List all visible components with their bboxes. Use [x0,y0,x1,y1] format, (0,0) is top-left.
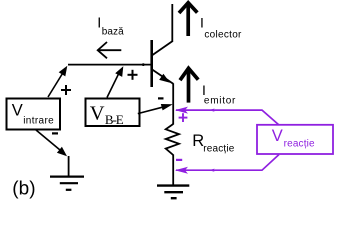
svg-text:intrare: intrare [23,115,54,126]
plus sign purple at resistor top [179,113,188,122]
node junction dot on base wire [142,63,145,66]
wire: base wire node B [68,64,151,66]
resistor Rreactie zigzag [166,124,179,155]
svg-text:I: I [200,15,204,31]
svg-text:colector: colector [204,29,242,40]
svg-text:V: V [90,103,105,125]
svg-text:bază: bază [102,27,124,38]
wire: emitter vertical [172,83,174,124]
current arrow Iemitor (thick, up) [180,68,198,102]
arrow VB-E to emitter [138,104,173,114]
svg-text:V: V [272,127,283,145]
ground left [50,177,84,190]
wire: emitter diagonal of Q1 [153,70,174,84]
arrowhead purple top big [175,107,188,114]
minus sign at Vintrare [52,132,58,134]
minus sign at emitter [158,97,164,99]
arrowhead purple bottom big [175,167,188,174]
transistor Q1 base bar [150,40,153,87]
ground right [157,186,189,199]
box Vreactie (purple) [257,125,333,154]
svg-text:(b): (b) [12,178,35,199]
current arrow Icolector (thick, up) [179,3,197,36]
wire: collector diagonal [153,41,173,55]
wire: purple feedback top line [176,110,279,125]
arrowhead purple top small [209,109,215,112]
arrow Vintrare to ground [36,130,67,156]
arrow Vintrare to base wire [48,66,67,97]
svg-text:reacție: reacție [284,138,315,149]
svg-text:reacție: reacție [203,144,234,155]
arrow VB-E to base wire [107,66,123,97]
minus sign purple at resistor bottom [176,159,182,161]
svg-text:emitor: emitor [204,96,236,107]
svg-text:B-E: B-E [105,112,124,127]
wire: purple feedback bottom line [176,155,279,171]
wire: left ground lead [68,156,70,177]
arrowhead purple bottom small [209,169,215,172]
wire: collector vertical [171,4,173,42]
plus sign at base [128,70,138,80]
svg-text:I: I [97,16,101,32]
plus sign at input wire [61,85,71,95]
source box Vintrare [7,99,61,130]
current arrow Ibaza (open, left) [98,42,122,58]
transistor Q1 emitter arrowhead [159,74,170,83]
wire: resistor bottom lead [172,155,174,186]
svg-text:V: V [12,101,23,119]
source box V B-E [86,99,140,127]
